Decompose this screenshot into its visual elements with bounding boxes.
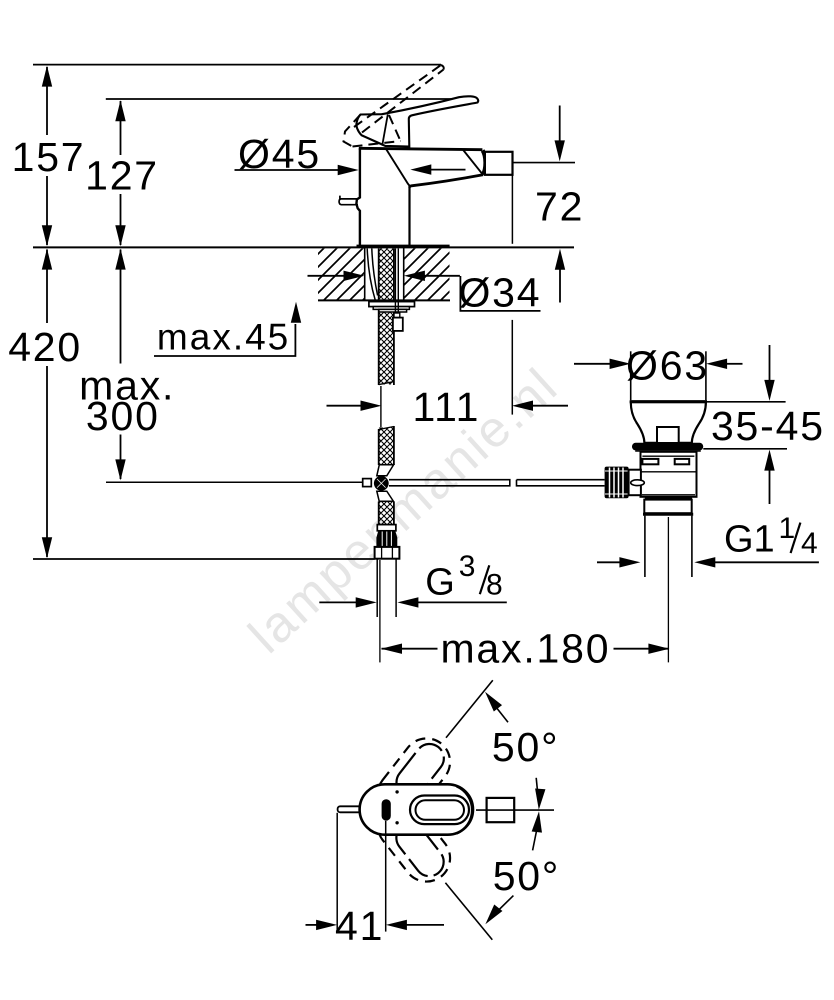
waste body slot left — [642, 459, 658, 464]
flex hose braid segment C — [379, 502, 394, 525]
deck hole walls — [365, 248, 404, 301]
svg-text:Ø34: Ø34 — [458, 270, 541, 316]
dimension 111 — [327, 405, 362, 407]
top-view lever slot ring — [410, 796, 469, 825]
flex hose braid segment A — [379, 249, 394, 386]
svg-text:8: 8 — [486, 569, 503, 602]
waste centerline / max.180 right extension — [667, 517, 669, 662]
top-view centerline — [476, 809, 554, 811]
svg-text:300: 300 — [86, 393, 160, 439]
top-view pop-up pin — [338, 806, 362, 812]
svg-text:41: 41 — [335, 903, 384, 949]
horizontal pop-up actuating rod — [389, 480, 605, 486]
aerator crescent — [483, 150, 486, 174]
linkage knurled knob — [605, 467, 629, 499]
dimension max.300 — [120, 250, 122, 480]
waste tailpipe — [645, 516, 692, 577]
svg-text:max.45: max.45 — [157, 317, 290, 358]
body inner diagonal left — [386, 148, 410, 186]
waste funnel top line — [630, 400, 707, 403]
dimension 35-45 — [703, 402, 787, 449]
50 deg lower ray — [445, 883, 492, 940]
deck hatch right block — [404, 248, 450, 299]
top-view pop-up knob (black) — [382, 799, 391, 820]
pop-up rod end cap — [394, 313, 400, 318]
G3/8 hex nut — [375, 547, 400, 559]
wire top reference line (157 max handle height) — [33, 64, 441, 66]
svg-text:420: 420 — [8, 324, 82, 370]
aerator box — [485, 152, 513, 175]
hose end collar — [377, 525, 396, 531]
max.180 left extension line — [379, 560, 381, 662]
dimension max.180 — [381, 644, 402, 654]
mounting nut step 2 — [379, 309, 407, 312]
waste body slot right — [675, 459, 690, 464]
svg-text:1: 1 — [779, 512, 796, 545]
dimension D63 — [631, 351, 706, 400]
dimension G1 1/4 — [597, 561, 620, 563]
dimension D34 — [308, 275, 346, 277]
dimension D45 — [235, 169, 341, 171]
deck bottom line — [318, 299, 450, 301]
lever top-view dashed swung down — [368, 793, 459, 891]
top-view faucet capsule — [360, 784, 473, 834]
dimension 72 — [513, 162, 575, 164]
svg-text:max.180: max.180 — [440, 626, 610, 672]
svg-text:Ø45: Ø45 — [238, 131, 321, 177]
body right edge — [408, 187, 410, 246]
rod clamp box left of ball — [363, 479, 372, 487]
waste nut bottom thick line — [643, 513, 693, 516]
dimension 420 — [46, 250, 48, 558]
pop-up knob pin on body — [339, 196, 358, 205]
hose cone nut (dark) — [376, 531, 397, 547]
waste flange lip line — [635, 450, 701, 452]
svg-text:157: 157 — [12, 134, 86, 180]
lever handle dashed raised position — [344, 65, 444, 147]
mounting nut step 1 — [373, 307, 409, 310]
wire deck reference line — [33, 246, 574, 248]
dimension max.45 leader — [154, 324, 295, 356]
faucet body and spout outline — [356, 148, 360, 245]
hose 2 curved lines in hole — [367, 249, 377, 301]
50 deg lower center arrow — [533, 831, 537, 850]
spout bottom edge — [410, 175, 484, 188]
50 deg lower arc arrow — [490, 896, 513, 919]
faucet base line — [357, 245, 450, 248]
mounting washer under deck — [369, 302, 415, 307]
body/spout top line — [359, 148, 483, 149]
dimension 157 — [46, 67, 48, 245]
deck hatch left block — [318, 248, 365, 299]
svg-text:127: 127 — [85, 153, 159, 199]
wire max.300 bottom reference line (pop-up rod level) — [106, 481, 363, 483]
svg-text:50°: 50° — [493, 853, 560, 899]
spout inner diagonal right — [463, 150, 482, 174]
pop-up rod below deck — [395, 249, 398, 314]
dimension G3/8 — [319, 601, 356, 603]
hose neck below ball — [377, 491, 394, 501]
pop-up waste funnel body — [631, 402, 706, 443]
top-view screw dots — [395, 790, 398, 793]
waste boss on flange — [657, 427, 679, 443]
dimension 41 — [337, 813, 386, 932]
hose break thin line — [380, 386, 382, 428]
lever top-view dashed swung up — [368, 729, 459, 827]
waste flange (dark bar) — [632, 443, 703, 451]
lever inner edge line — [382, 114, 388, 145]
svg-text:111: 111 — [413, 384, 481, 430]
flex hose braid segment B — [379, 426, 394, 465]
svg-text:35-45: 35-45 — [711, 403, 825, 449]
svg-text:Ø63: Ø63 — [626, 342, 709, 388]
top-view spout root arc — [457, 786, 473, 833]
svg-text:72: 72 — [535, 184, 584, 230]
hose neck above ball — [377, 465, 394, 476]
dimension 127 — [120, 101, 122, 245]
svg-text:G1: G1 — [724, 519, 775, 561]
wire 420 bottom reference line — [33, 558, 375, 560]
50 deg upper ray — [446, 680, 493, 738]
waste body — [641, 452, 697, 497]
50 deg upper center arrow — [536, 778, 538, 796]
50 deg upper arc arrow — [490, 700, 508, 723]
linkage clevis box — [629, 470, 641, 496]
svg-text:50°: 50° — [492, 724, 559, 770]
waste lock nut — [644, 500, 691, 514]
lever handle solid — [356, 96, 478, 146]
svg-text:3: 3 — [459, 550, 476, 583]
ball joint — [374, 476, 389, 491]
waste body inner lines — [641, 456, 697, 495]
linkage cotter pin — [631, 480, 645, 486]
top-view aerator box — [487, 798, 515, 822]
waste dark band — [645, 497, 692, 500]
svg-text:4: 4 — [801, 527, 818, 560]
wire 127 reference line (handle tip height) — [106, 98, 474, 100]
pop-up rod coupler box — [393, 318, 403, 331]
svg-text:G: G — [425, 562, 455, 604]
supply pipe — [377, 559, 396, 617]
